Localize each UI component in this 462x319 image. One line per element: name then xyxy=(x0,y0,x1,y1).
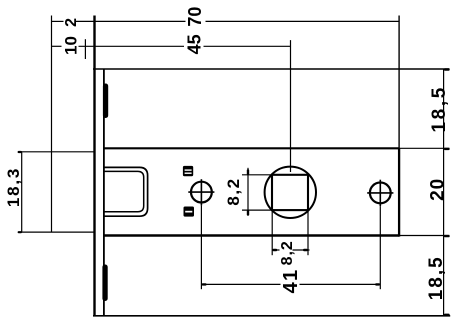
spindle square hole xyxy=(272,175,308,210)
8,2 vertical top extension xyxy=(242,174,273,176)
8,2 horizontal left extension xyxy=(271,210,273,255)
screw hole 1 circle xyxy=(191,182,212,203)
latch case right edge xyxy=(398,148,400,236)
latch case bottom extension line xyxy=(399,235,449,237)
screw hole 2 circle xyxy=(370,183,391,204)
square symbol 2 (two bars) xyxy=(184,207,195,217)
svg-text:45: 45 xyxy=(185,34,205,54)
tick right dim at y=235.5 xyxy=(444,235,450,237)
tick right dim at y=315.8 xyxy=(444,314,450,316)
tick right dim at y=148.3 xyxy=(444,148,450,150)
dimension line 18,3 xyxy=(21,152,23,232)
svg-text:8,2: 8,2 xyxy=(224,177,243,205)
41 right extension from screw2 xyxy=(379,206,381,289)
svg-text:2: 2 xyxy=(63,18,80,27)
svg-text:18,5: 18,5 xyxy=(429,85,450,132)
latch bolt inner outline xyxy=(104,171,144,211)
extension line from case right edge up to 70-dim xyxy=(398,16,400,149)
svg-text:41: 41 xyxy=(280,269,302,294)
8,2 vertical bottom extension xyxy=(242,209,273,211)
bolt guide blob top on faceplate xyxy=(103,84,108,119)
svg-text:20: 20 xyxy=(428,178,449,201)
41 dimension line xyxy=(201,283,280,285)
svg-text:10: 10 xyxy=(62,36,81,55)
8,2 horizontal right extension xyxy=(307,210,309,255)
18,3 top extension xyxy=(19,151,95,153)
tick 8,2 horizontal right xyxy=(303,249,308,251)
right chained dimension line 18,5/20/18,5 xyxy=(443,69,445,316)
latch case top edge xyxy=(104,147,399,149)
bottom outline line of latch assembly xyxy=(93,315,450,317)
tick 18,3 dim bottom xyxy=(18,231,22,233)
svg-text:8,2: 8,2 xyxy=(279,240,296,265)
latch case bottom edge xyxy=(104,234,399,236)
svg-text:70: 70 xyxy=(185,7,205,27)
dimension line 10/45 xyxy=(52,45,62,47)
spindle follower circle xyxy=(265,167,316,218)
tick right dim at y=69 xyxy=(444,68,450,70)
bolt guide blob bottom on faceplate xyxy=(102,265,107,302)
41 left extension from screw1 xyxy=(200,205,202,289)
tick 8,2 horizontal left xyxy=(272,249,277,251)
8,2 horizontal dimension line xyxy=(272,249,279,251)
extension line spindle centre down from 45-dim xyxy=(290,40,292,172)
screw hole 1 cross xyxy=(188,191,214,193)
latch case top extension line xyxy=(399,147,449,149)
screw hole 2 cross xyxy=(367,192,393,194)
square symbol 1 (three bars) xyxy=(183,166,193,176)
faceplate right edge xyxy=(103,69,105,316)
extension line bolt tip (left vertical) xyxy=(51,16,53,233)
faceplate left edge xyxy=(93,16,95,316)
top outline line of latch assembly xyxy=(93,68,450,70)
svg-text:18,5: 18,5 xyxy=(426,255,447,300)
tick 41 dim right xyxy=(375,283,380,285)
tick 18,3 dim top xyxy=(18,151,22,153)
tick 8,2 vertical bottom xyxy=(247,210,249,216)
8,2 vertical dimension line xyxy=(247,168,249,216)
svg-text:18,3: 18,3 xyxy=(4,167,23,207)
dimension line 2/70 xyxy=(52,20,64,22)
latch bolt outer outline xyxy=(104,167,148,216)
tick 8,2 vertical top xyxy=(247,169,249,175)
short tick near 10 dim xyxy=(84,39,86,59)
tick 41 dim left xyxy=(202,283,207,285)
18,3 bottom extension xyxy=(19,231,95,233)
